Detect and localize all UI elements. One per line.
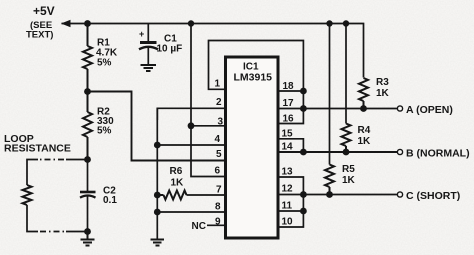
- junction dot pin 18/bus A: [300, 88, 307, 95]
- svg-text:12: 12: [282, 184, 294, 195]
- svg-text:15: 15: [282, 129, 294, 140]
- junction dot pin 17/bus A: [300, 105, 307, 112]
- svg-text:1K: 1K: [171, 178, 185, 189]
- svg-text:17: 17: [283, 98, 295, 109]
- junction dot pin 3 (V+): [188, 122, 195, 129]
- wire pin 1 wrap to output bus A: [209, 41, 304, 124]
- junction dot +5V/pin3 drop: [188, 20, 194, 26]
- junction dot +5V/R1: [84, 20, 91, 27]
- wire pin 3 stub: [191, 125, 226, 127]
- svg-text:0.1: 0.1: [103, 195, 117, 206]
- pin number 4: [215, 134, 221, 145]
- resistor R5: [325, 24, 334, 195]
- label C (SHORT): [406, 190, 460, 202]
- junction dot R3/terminal A wire: [360, 105, 367, 112]
- svg-text:16: 16: [283, 114, 295, 125]
- svg-text:5: 5: [216, 149, 222, 160]
- wire pin 11 stub: [279, 210, 304, 212]
- svg-text:2: 2: [216, 97, 222, 108]
- svg-text:8: 8: [215, 202, 221, 213]
- pin number 7: [216, 185, 222, 196]
- terminal C (open circle): [397, 192, 402, 197]
- junction dot C2/loop/ground: [84, 228, 91, 235]
- wire pin 18 stub: [279, 90, 304, 92]
- svg-text:18: 18: [283, 81, 295, 92]
- capacitor C1: [139, 24, 158, 65]
- pin number 12: [282, 184, 294, 195]
- wire node Y to loop resistance (dashed break): [27, 160, 88, 186]
- terminal B (open circle): [397, 149, 402, 154]
- svg-text:+5V: +5V: [33, 4, 55, 18]
- svg-text:TEXT): TEXT): [26, 30, 53, 41]
- svg-text:R3: R3: [376, 77, 389, 88]
- svg-text:LM3915: LM3915: [234, 72, 273, 84]
- junction dot pin 8/ground bus: [154, 209, 161, 216]
- label IC1 LM3915: [234, 62, 273, 84]
- svg-text:9: 9: [215, 217, 221, 228]
- capacitor C2: [80, 160, 96, 232]
- wire pin 15 to bus B: [279, 139, 304, 152]
- label B (NORMAL): [406, 148, 470, 160]
- svg-text:RESISTANCE: RESISTANCE: [4, 143, 71, 155]
- resistor R1: [83, 24, 92, 92]
- terminal A (open circle): [397, 106, 402, 111]
- svg-text:5%: 5%: [97, 126, 112, 137]
- label R5 1K: [342, 164, 356, 186]
- svg-text:14: 14: [282, 142, 294, 153]
- svg-text:10: 10: [282, 217, 294, 228]
- junction dot pin 11/bus C: [300, 208, 307, 215]
- label R2 330 5%: [97, 107, 114, 137]
- pin number 18: [283, 81, 295, 92]
- svg-text:10 µF: 10 µF: [157, 44, 183, 55]
- resistor R4: [342, 24, 351, 153]
- svg-text:C (SHORT): C (SHORT): [406, 190, 460, 202]
- node Y junction dot (R2/C2/loop): [84, 156, 91, 163]
- label R6 1K: [170, 166, 185, 189]
- svg-text:1K: 1K: [358, 136, 372, 147]
- pin number 2: [216, 97, 222, 108]
- node X junction dot (R1/R2/signal): [84, 88, 91, 95]
- junction dot R4/terminal B wire: [343, 149, 350, 156]
- pin number 3: [218, 117, 224, 128]
- pin number 9: [215, 217, 221, 228]
- ground bus vertical: [156, 108, 158, 239]
- junction dot pin 14/bus B: [300, 149, 307, 156]
- ground below C1: [141, 65, 157, 71]
- wire loop resistance bottom (dashed break): [27, 205, 88, 232]
- svg-text:R6: R6: [170, 166, 183, 177]
- svg-text:A (OPEN): A (OPEN): [406, 104, 453, 116]
- svg-text:+: +: [139, 29, 144, 39]
- wire pin 17 to terminal A: [279, 108, 398, 110]
- wire pin 2 to ground bus: [157, 108, 225, 120]
- wire pin 12 to terminal C: [279, 194, 398, 196]
- label R3 1K: [376, 77, 390, 99]
- svg-text:13: 13: [282, 167, 294, 178]
- wire pin 8 stub: [157, 211, 225, 213]
- junction dot +5V/R5: [326, 20, 332, 26]
- svg-text:B (NORMAL): B (NORMAL): [406, 148, 470, 160]
- pin number 8: [215, 202, 221, 213]
- svg-text:3: 3: [218, 117, 224, 128]
- label +5V supply: [26, 4, 55, 41]
- pin number 13: [282, 167, 294, 178]
- wire pin 4 stub: [157, 144, 225, 146]
- svg-text:R4: R4: [358, 125, 371, 136]
- pin number 5: [216, 149, 222, 160]
- loop resistance resistor (unlabelled): [23, 185, 32, 205]
- svg-text:NC: NC: [192, 221, 206, 232]
- label LOOP RESISTANCE: [4, 133, 71, 155]
- wire node X to pin 5 (signal input): [88, 92, 226, 161]
- pin 9 NC stub: [207, 224, 226, 226]
- wire pin 14 to terminal B: [279, 151, 398, 153]
- pin number 10: [282, 217, 294, 228]
- pin number 16: [283, 114, 295, 125]
- IC body IC1: [226, 57, 279, 238]
- ground below C2: [81, 232, 95, 246]
- junction dot R5/terminal C wire: [326, 191, 333, 198]
- label NC: [192, 221, 206, 232]
- junction dot pin 4/ground bus: [154, 142, 161, 149]
- pin number 6: [215, 166, 221, 177]
- label C2 0.1: [103, 186, 117, 207]
- pin number 15: [282, 129, 294, 140]
- svg-text:5%: 5%: [97, 58, 112, 69]
- resistor R3: [359, 78, 368, 109]
- svg-text:R5: R5: [342, 164, 355, 175]
- wire +5V rail: [62, 24, 364, 78]
- resistor R2: [83, 92, 92, 160]
- resistor R6: [157, 191, 225, 200]
- ground below IC (pin 2/4/8 bus): [151, 240, 165, 246]
- label C1 10uF: [157, 34, 183, 55]
- label R4 1K: [358, 125, 372, 147]
- wire +5V to pin 3 and pin 6: [191, 24, 226, 177]
- svg-text:4: 4: [215, 134, 221, 145]
- junction dot +5V/R4: [343, 20, 349, 26]
- svg-text:6: 6: [215, 166, 221, 177]
- svg-text:11: 11: [282, 201, 293, 212]
- svg-text:1K: 1K: [342, 175, 356, 186]
- svg-text:1K: 1K: [376, 88, 390, 99]
- pin number 1: [215, 79, 221, 90]
- pin number 11: [282, 201, 293, 212]
- +5V arrow head: [61, 20, 71, 27]
- label R1 4.7K 5%: [96, 38, 118, 69]
- junction dot R6/ground bus: [154, 192, 161, 199]
- svg-text:7: 7: [216, 185, 222, 196]
- svg-text:1: 1: [215, 79, 221, 90]
- label A (OPEN): [406, 104, 453, 116]
- pin number 14: [282, 142, 294, 153]
- junction dot pin 12/bus C: [300, 191, 307, 198]
- pin number 17: [283, 98, 295, 109]
- wire pin 13 / pin 10 bus C: [279, 177, 304, 227]
